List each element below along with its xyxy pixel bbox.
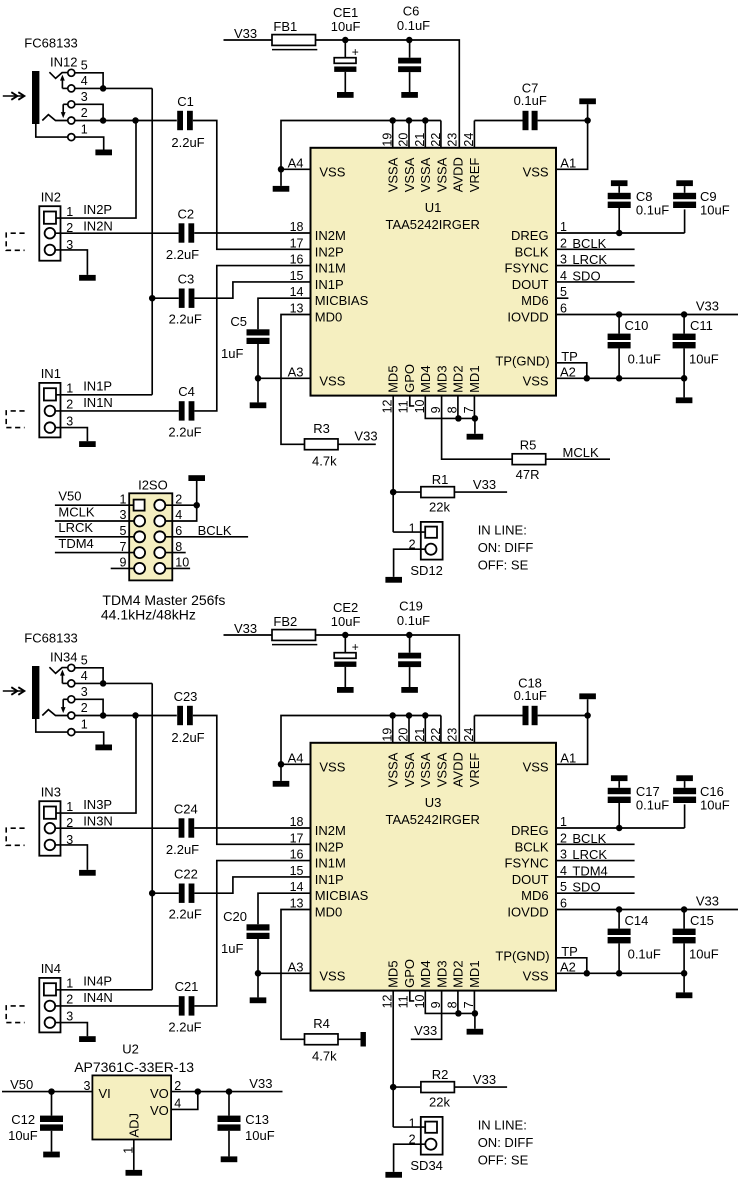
wire IN1P to jack (56, 394, 152, 396)
svg-text:A4: A4 (288, 750, 304, 765)
wire VSSA pins to VSS net (281, 716, 441, 765)
header I2SO pin 10 (154, 563, 165, 574)
svg-text:2: 2 (409, 1133, 416, 1147)
wire V50 to U2 VI (2, 1091, 92, 1093)
svg-text:VSS: VSS (523, 373, 549, 388)
jack pin 2 (68, 712, 75, 719)
svg-text:SD34: SD34 (410, 1158, 443, 1173)
junction jack pins3-2 (100, 712, 107, 719)
wire jack pin3 to pin2 (75, 104, 103, 120)
svg-text:16: 16 (290, 253, 304, 267)
svg-text:VREF: VREF (467, 753, 482, 788)
jack switch arrow (pins 3-2) (63, 698, 68, 700)
junction rail-C19 (406, 632, 413, 639)
svg-text:2: 2 (81, 106, 88, 120)
svg-text:IOVDD: IOVDD (507, 905, 548, 920)
mic symbol at IN4 (6, 1006, 24, 1023)
svg-text:A4: A4 (288, 155, 304, 170)
svg-text:FC68133: FC68133 (24, 631, 77, 646)
connector IN2 pin 1 (square) (44, 212, 56, 224)
svg-text:4: 4 (560, 864, 567, 878)
svg-text:3: 3 (560, 253, 567, 267)
wire IN2P to jack (56, 121, 136, 219)
wire U2 VO to V33 (171, 1091, 282, 1093)
ground at jack pin1 (95, 745, 112, 751)
wire IN4P to jack (56, 989, 152, 991)
svg-text:IN3P: IN3P (83, 797, 112, 812)
svg-text:1: 1 (119, 492, 126, 506)
jack ring contact (42, 115, 68, 121)
svg-text:17: 17 (290, 831, 304, 845)
svg-text:V33: V33 (354, 428, 377, 443)
svg-text:V33: V33 (473, 1072, 496, 1087)
jack switch arrow (pins 4-5) (62, 682, 67, 684)
svg-text:C2: C2 (177, 206, 194, 221)
junction C18-A1 (584, 712, 591, 719)
svg-text:FSYNC: FSYNC (505, 261, 549, 276)
ground under C15 (683, 973, 685, 992)
svg-text:2.2uF: 2.2uF (171, 730, 204, 745)
junction C14-VSS (616, 970, 623, 977)
wire IOVDD pin6 to V33 (556, 314, 738, 316)
svg-text:15: 15 (290, 864, 304, 878)
svg-text:R2: R2 (432, 1067, 449, 1082)
svg-text:4: 4 (174, 1097, 181, 1111)
header I2SO pin 6 (154, 531, 165, 542)
svg-text:6: 6 (560, 302, 567, 316)
svg-text:TP: TP (561, 944, 578, 959)
wire C21 to IN1M pin16 (194, 861, 310, 1006)
wire R3 to V33 (338, 443, 376, 445)
svg-text:1: 1 (66, 977, 73, 991)
svg-text:SD12: SD12 (410, 563, 443, 578)
wire R4 to V33 tie (338, 1038, 361, 1040)
svg-text:TP: TP (561, 349, 578, 364)
svg-text:VSSA: VSSA (402, 752, 417, 787)
svg-text:R1: R1 (432, 472, 449, 487)
capacitor C10 (0.1uF) (618, 315, 620, 334)
svg-text:0.1uF: 0.1uF (628, 351, 661, 366)
svg-text:24: 24 (462, 728, 476, 742)
junction node A4 (278, 166, 285, 173)
svg-text:3: 3 (81, 90, 88, 104)
connector IN2 pin 2 (45, 228, 56, 239)
jack pin 5 (68, 664, 75, 671)
wire A3 VSS (258, 377, 311, 379)
svg-text:1: 1 (560, 815, 567, 829)
connector IN1 body (39, 383, 60, 438)
wire C1 to IN2P pin17 (193, 121, 311, 250)
svg-text:5: 5 (81, 58, 88, 72)
svg-text:VSSA: VSSA (418, 157, 433, 192)
junction rail-C6 (406, 37, 413, 44)
svg-text:C23: C23 (174, 689, 198, 704)
svg-text:VSS: VSS (319, 373, 345, 388)
wire MD6 pin5 stub (556, 297, 568, 299)
svg-text:C21: C21 (175, 979, 199, 994)
svg-text:LRCK: LRCK (58, 520, 93, 535)
svg-text:24: 24 (462, 133, 476, 147)
svg-text:4.7k: 4.7k (312, 1049, 337, 1064)
svg-text:U2: U2 (122, 1041, 139, 1056)
svg-text:0.1uF: 0.1uF (397, 613, 430, 628)
wire DREG pin1 to C17/C16 (556, 827, 685, 829)
svg-text:VO: VO (150, 1103, 169, 1118)
wire MD2 pin8 down (457, 991, 459, 1014)
svg-text:V50: V50 (10, 1077, 33, 1092)
wire MD0 pin13 to R3 (281, 315, 311, 445)
svg-text:R3: R3 (313, 421, 330, 436)
wire rail to AVDD pin 23 (316, 635, 460, 743)
jack tip contact (49, 72, 67, 78)
svg-text:C1: C1 (177, 94, 194, 109)
header I2SO pin 8 (154, 547, 165, 558)
ground under C12 (43, 1152, 60, 1158)
svg-text:VI: VI (99, 1086, 111, 1101)
jack switch arrow (pins 4-5) (62, 87, 67, 89)
junction V50-C12 (48, 1088, 55, 1095)
svg-text:CE2: CE2 (333, 600, 358, 615)
svg-text:11: 11 (397, 400, 411, 413)
svg-text:5: 5 (81, 653, 88, 667)
wire I2SO pin8 stub (165, 552, 185, 554)
svg-text:1: 1 (121, 1147, 135, 1154)
jack ring contact (42, 710, 68, 716)
svg-text:12: 12 (380, 994, 394, 1008)
svg-text:MD5: MD5 (386, 365, 401, 392)
wire net SDO (556, 892, 635, 894)
wire V50 to I2SO pin1 (55, 504, 134, 506)
svg-text:0.1uF: 0.1uF (628, 946, 661, 961)
vss bar above C7 (587, 104, 589, 120)
svg-text:2.2uF: 2.2uF (171, 135, 204, 150)
svg-text:1uF: 1uF (221, 941, 243, 956)
svg-text:C20: C20 (223, 909, 247, 924)
svg-text:3: 3 (81, 685, 88, 699)
svg-text:ON: DIFF: ON: DIFF (478, 1135, 534, 1150)
wire MD5 pin12 down (392, 396, 394, 532)
wire IN1N to C4 (55, 410, 179, 412)
svg-text:A2: A2 (560, 364, 576, 379)
wire MD3 pin9 to V33 (411, 991, 442, 1040)
junction VSSA pin21 (422, 117, 429, 124)
svg-text:MD6: MD6 (521, 888, 548, 903)
svg-text:FC68133: FC68133 (24, 36, 77, 51)
junction VSSA pin19 (389, 117, 396, 124)
junction C22 (149, 890, 156, 897)
ground under C5 (257, 378, 259, 402)
svg-text:IN2P: IN2P (315, 244, 344, 259)
svg-text:20: 20 (397, 133, 411, 147)
ground at MD1/MD2 (474, 418, 476, 433)
capacitor C14 (0.1uF) (618, 910, 620, 929)
svg-text:IN34: IN34 (50, 650, 77, 665)
capacitor C12 (10uF) (51, 1092, 53, 1116)
junction MD1 pin7 (472, 1010, 479, 1017)
junction rail-CE2 (342, 632, 349, 639)
svg-text:VO: VO (150, 1086, 169, 1101)
svg-text:V50: V50 (58, 489, 81, 504)
svg-text:GPO: GPO (402, 959, 417, 988)
wire jack pin2 out (75, 120, 177, 122)
svg-text:TDM4: TDM4 (572, 863, 607, 878)
ground at IN3 pin3 (79, 870, 96, 876)
connector IN1 pin 2 (45, 406, 56, 417)
svg-text:IN4P: IN4P (83, 974, 112, 989)
svg-text:23: 23 (446, 133, 460, 147)
wire MD0 pin13 to R4 (281, 910, 311, 1040)
svg-text:1: 1 (66, 382, 73, 396)
connector IN4 pin 1 (square) (44, 983, 56, 995)
svg-text:1: 1 (81, 123, 88, 137)
svg-text:C4: C4 (178, 384, 195, 399)
svg-text:2: 2 (174, 1079, 181, 1093)
ferrite bead FB2 (272, 630, 316, 641)
svg-text:V33: V33 (234, 621, 257, 636)
regulator U2 body (92, 1075, 171, 1139)
svg-text:10uF: 10uF (689, 946, 719, 961)
svg-text:MICBIAS: MICBIAS (315, 293, 369, 308)
svg-text:U1: U1 (425, 200, 442, 215)
junction C3 (149, 295, 156, 302)
svg-text:MD2: MD2 (451, 960, 466, 987)
wire IN4N to C21 (55, 1005, 179, 1007)
svg-text:C6: C6 (403, 3, 420, 18)
svg-text:4: 4 (81, 74, 88, 88)
mic symbol at IN3 (6, 828, 24, 845)
svg-text:BCLK: BCLK (198, 523, 232, 538)
svg-text:TP(GND): TP(GND) (495, 948, 549, 963)
svg-text:C15: C15 (690, 913, 714, 928)
svg-text:2: 2 (560, 831, 567, 845)
svg-text:BCLK: BCLK (515, 244, 549, 259)
capacitor C8 (0.1uF) (611, 180, 628, 186)
svg-text:VSS: VSS (523, 759, 549, 774)
svg-text:C14: C14 (625, 913, 649, 928)
svg-text:V33: V33 (234, 26, 257, 41)
jack pin 2 (68, 117, 75, 124)
wire IOVDD pin6 to V33 (556, 909, 738, 911)
svg-text:U3: U3 (425, 795, 442, 810)
junction C15-VSS (681, 970, 688, 977)
vss bar above C18 (587, 699, 589, 715)
ground at MD1/MD2 (474, 1013, 476, 1028)
svg-text:16: 16 (290, 848, 304, 862)
wire jack to C22 and IN4P (151, 683, 153, 989)
svg-text:IN3N: IN3N (83, 814, 113, 829)
svg-text:MCLK: MCLK (58, 504, 94, 519)
ground at SD34 (385, 1172, 402, 1178)
connector IN3 pin 1 (square) (44, 807, 56, 819)
svg-text:2: 2 (560, 236, 567, 250)
wire A2 VSS rail (556, 972, 684, 974)
wire jack pin2 out (75, 715, 177, 717)
svg-text:ADJ: ADJ (127, 1113, 142, 1138)
junction I2SO pin2-pin4 (193, 502, 200, 509)
svg-text:IN LINE:: IN LINE: (478, 522, 527, 537)
svg-text:1: 1 (409, 1116, 416, 1130)
wire I2SO pin9 stub (111, 567, 134, 569)
svg-text:47R: 47R (516, 467, 540, 482)
svg-text:15: 15 (290, 269, 304, 283)
svg-text:MD0: MD0 (315, 310, 342, 325)
junction jack pins4-5 (100, 85, 107, 92)
ground at SD12 (385, 577, 402, 583)
wire TP to VSS (556, 363, 587, 379)
wire C22 to IN1P pin15 (194, 877, 310, 893)
svg-text:17: 17 (290, 236, 304, 250)
junction VSSA pin20 (406, 117, 413, 124)
svg-text:7: 7 (119, 540, 126, 554)
junction jack-IN3P (132, 712, 139, 719)
capacitor C9 (10uF) (676, 180, 693, 186)
svg-text:V33: V33 (696, 894, 719, 909)
wire MD2 pin8 down (457, 396, 459, 419)
svg-text:13: 13 (290, 302, 304, 316)
svg-text:5: 5 (560, 880, 567, 894)
svg-text:21: 21 (413, 133, 427, 147)
wire A4 VSS to IC (281, 763, 311, 765)
svg-text:MD4: MD4 (418, 365, 433, 392)
junction MD5-R2 (390, 1084, 397, 1091)
wire A1 VSS (556, 121, 588, 170)
svg-text:FB2: FB2 (273, 614, 297, 629)
svg-text:44.1kHz/48kHz: 44.1kHz/48kHz (101, 606, 196, 622)
svg-text:14: 14 (290, 880, 304, 894)
svg-text:MD4: MD4 (418, 960, 433, 987)
jack pin 5 (68, 69, 75, 76)
svg-text:3: 3 (83, 1079, 90, 1093)
wire GPO pin11 stub (410, 396, 414, 406)
jack tip contact (49, 667, 67, 673)
svg-text:IN1M: IN1M (315, 856, 346, 871)
svg-text:C13: C13 (245, 1112, 269, 1127)
svg-text:IN1M: IN1M (315, 261, 346, 276)
wire DREG pin1 to C8/C9 (556, 232, 685, 234)
svg-text:MD0: MD0 (315, 905, 342, 920)
svg-text:2: 2 (81, 701, 88, 715)
ground at IN2 pin3 (79, 275, 96, 281)
svg-text:2: 2 (66, 398, 73, 412)
svg-text:IN3: IN3 (41, 785, 61, 800)
svg-text:IN4: IN4 (41, 961, 61, 976)
wire MD1 pin7 down (473, 991, 475, 1014)
wire jack pin5 to pin4 (75, 73, 103, 89)
svg-text:4: 4 (560, 269, 567, 283)
svg-text:AP7361C-33ER-13: AP7361C-33ER-13 (74, 1059, 194, 1075)
wire net BCLK (556, 248, 635, 250)
header I2SO body (129, 493, 172, 580)
svg-text:1: 1 (560, 220, 567, 234)
header I2SO pin 5 (134, 531, 145, 542)
svg-text:9: 9 (119, 556, 126, 570)
ground at IN4 pin3 (79, 1036, 96, 1042)
ground under C13 (221, 1156, 238, 1162)
connector IN4 pin 3 (45, 1017, 56, 1028)
ground at A4 (280, 764, 282, 781)
ground at IN1 pin3 (79, 441, 96, 447)
header I2SO pin 7 (134, 547, 145, 558)
svg-text:IN2P: IN2P (83, 202, 112, 217)
svg-text:BCLK: BCLK (572, 236, 606, 251)
wire jack pin4 out (75, 682, 103, 684)
resistor R1 (22k) (393, 491, 421, 493)
svg-text:V33: V33 (473, 477, 496, 492)
junction C7-A1 (584, 117, 591, 124)
switch SD12 pin 2 (425, 544, 436, 555)
svg-text:BCLK: BCLK (572, 831, 606, 846)
svg-text:2.2uF: 2.2uF (169, 906, 202, 921)
connector IN1 pin 1 (square) (44, 388, 56, 400)
capacitor C17 (0.1uF) (611, 775, 628, 781)
svg-text:VREF: VREF (467, 158, 482, 193)
svg-text:10: 10 (175, 556, 189, 570)
connector IN3 pin 3 (45, 840, 56, 851)
wire TP to VSS (556, 958, 587, 974)
junction DREG-C8 (616, 230, 623, 237)
wire SD34 pin2 to ground (394, 1144, 426, 1172)
ground under C19 (401, 687, 418, 693)
junction IOVDD-C14 (616, 906, 623, 913)
wire jack pin4 out (75, 87, 103, 89)
junction node A4 (278, 761, 285, 768)
wire U2 ADJ pin1 to ground (133, 1140, 135, 1170)
svg-text:3: 3 (560, 848, 567, 862)
wire MD4 pin10 to ground net (425, 396, 475, 419)
connector IN2 body (39, 206, 60, 261)
capacitor C15 (10uF) (683, 910, 685, 929)
wire VSSA pins to VSS net (281, 121, 441, 170)
svg-text:1: 1 (66, 800, 73, 814)
svg-text:2.2uF: 2.2uF (166, 842, 199, 857)
wire SD12 pin1 (393, 531, 425, 533)
wire jack pin1 to ground (75, 732, 104, 744)
junction C10-VSS (616, 375, 623, 382)
ground under C6 (401, 92, 418, 98)
svg-text:6: 6 (560, 897, 567, 911)
connector IN4 pin 2 (45, 1001, 56, 1012)
svg-text:OFF: SE: OFF: SE (478, 1153, 529, 1168)
svg-text:IN LINE:: IN LINE: (478, 1117, 527, 1132)
wire net SDO (556, 281, 635, 283)
wire A4 VSS to IC (281, 168, 311, 170)
wire R5 to MCLK (546, 458, 610, 460)
svg-text:22: 22 (429, 728, 443, 742)
svg-text:IN2P: IN2P (315, 839, 344, 854)
svg-text:10uF: 10uF (700, 797, 730, 812)
wire jack pin3 to pin2 (75, 699, 103, 715)
svg-text:8: 8 (175, 540, 182, 554)
svg-text:C5: C5 (230, 314, 247, 329)
svg-text:LRCK: LRCK (572, 252, 607, 267)
junction C5-A3 (255, 375, 262, 382)
svg-text:IN1P: IN1P (83, 379, 112, 394)
mic symbol at IN2 (6, 233, 24, 250)
svg-text:VSSA: VSSA (434, 752, 449, 787)
junction rail-CE1 (342, 37, 349, 44)
ground under CE2 (337, 687, 354, 693)
ground under C11 (683, 378, 685, 397)
svg-text:2.2uF: 2.2uF (168, 1019, 201, 1034)
svg-text:VSSA: VSSA (434, 157, 449, 192)
svg-text:1: 1 (409, 521, 416, 535)
junction TP-A2 (584, 375, 591, 382)
svg-text:IN1P: IN1P (315, 872, 344, 887)
svg-text:IN4N: IN4N (83, 990, 113, 1005)
junction VSSA pin20 (406, 712, 413, 719)
svg-text:AVDD: AVDD (451, 157, 466, 192)
ground under CE1 (337, 92, 354, 98)
